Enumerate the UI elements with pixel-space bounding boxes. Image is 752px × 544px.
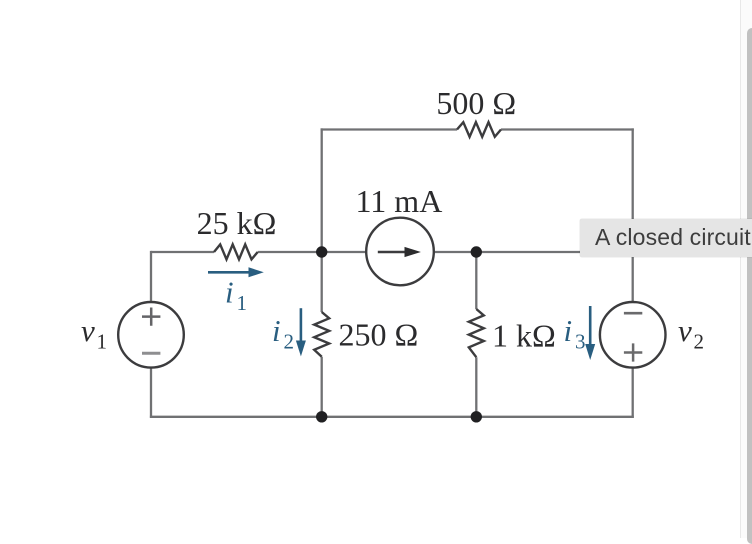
node dot bottom left junction [316, 411, 327, 422]
v2 minus sign (top) [624, 312, 642, 315]
wire: middle horizontal (25k resistor to node A) [258, 251, 366, 253]
current source 11 mA (circle with right arrow) [366, 218, 434, 286]
wire: middle-right vertical branch below node B through 1 kohm [475, 252, 477, 417]
label i2 (blue) [272, 313, 294, 354]
resistor 500 Ohm (horizontal zigzag, top branch) [457, 122, 501, 137]
label v1 [81, 313, 107, 354]
resistor 250 Ohm (vertical zigzag) [314, 312, 329, 357]
node B dot (top right junction) [471, 246, 482, 257]
v1 minus sign [142, 352, 160, 355]
svg-text:2: 2 [284, 330, 295, 354]
svg-text:3: 3 [575, 330, 586, 354]
svg-text:i: i [272, 313, 281, 348]
label v2 [678, 313, 704, 354]
svg-text:1: 1 [237, 291, 248, 315]
svg-text:1: 1 [97, 330, 108, 354]
voltage source v1 (circle) [118, 302, 184, 368]
label i1 (blue) [225, 275, 247, 316]
tooltip: A closed circuit [580, 219, 752, 257]
node dot bottom right junction [471, 411, 482, 422]
svg-text:11 mA: 11 mA [355, 183, 442, 219]
node A dot (top left junction) [316, 246, 327, 257]
scrollbar thumb [747, 28, 752, 544]
svg-text:v: v [678, 313, 692, 348]
label 500 Ohm [436, 85, 516, 121]
svg-text:v: v [81, 313, 95, 348]
resistor 25 kOhm (horizontal zigzag) [214, 244, 258, 259]
wire: bottom horizontal [150, 416, 634, 418]
svg-text:i: i [225, 275, 234, 310]
resistor 1 kOhm (vertical zigzag) [469, 309, 484, 357]
label 1 kOhm [492, 318, 556, 354]
wire: middle horizontal left segment (v1 corner to 25k resistor) [151, 251, 214, 253]
current arrow i3 (blue, downward, left of v2) [585, 306, 595, 360]
wire: top horizontal with gap for 500 ohm [321, 128, 634, 130]
svg-text:i: i [564, 313, 573, 348]
svg-text:25 kΩ: 25 kΩ [197, 205, 277, 241]
label 250 Ohm [339, 317, 419, 353]
label i3 (blue) [564, 313, 586, 354]
svg-text:1 kΩ: 1 kΩ [492, 318, 556, 354]
v2 plus sign (bottom) [624, 343, 642, 361]
wire: left branch vertical (corner, v1 leads) [150, 251, 152, 418]
current arrow i1 (blue, rightward, under 25 kOhm) [208, 267, 264, 277]
wire: middle horizontal (current source to node B and right branch) [434, 251, 633, 253]
label 11 mA [355, 183, 442, 219]
svg-text:250 Ω: 250 Ω [339, 317, 419, 353]
wire: middle-left vertical branch through node A and 250 ohm [321, 128, 323, 416]
scrollbar track [740, 0, 752, 538]
current arrow i2 (blue, downward, left of 250 Ohm) [296, 308, 306, 356]
label 25 kOhm [197, 205, 277, 241]
current source arrow [378, 251, 406, 253]
v1 plus sign [142, 308, 160, 326]
voltage source v2 (circle) [600, 302, 666, 368]
svg-text:500 Ω: 500 Ω [436, 85, 516, 121]
wire: right branch vertical (top corner to v2, v2 to bottom corner) [632, 128, 634, 418]
svg-text:2: 2 [694, 330, 705, 354]
